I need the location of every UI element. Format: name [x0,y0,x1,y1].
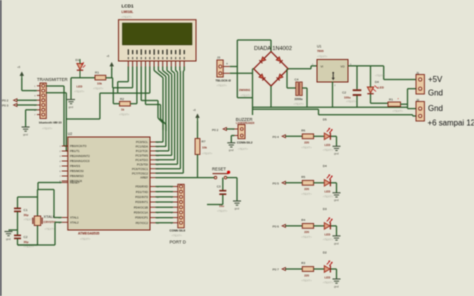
svg-text:PC4/TDO: PC4/TDO [135,158,148,162]
svg-text:PD3/INT1: PD3/INT1 [135,200,148,204]
svg-text:PC2/TCK: PC2/TCK [136,149,148,153]
svg-text:PB3/AIN1/OC0: PB3/AIN1/OC0 [70,159,90,163]
wire [222,178,224,191]
svg-text:<TEXT>: <TEXT> [301,192,312,196]
ground (D5) [333,146,341,155]
wire [18,190,38,217]
wire [9,212,18,235]
svg-text:LED: LED [325,276,331,280]
capacitor C2 (xtal) [14,235,34,249]
wire (supply rail) [253,109,417,116]
svg-text:PB6/MISO: PB6/MISO [70,174,84,178]
LED D3 [323,207,334,241]
LED D5 [323,118,334,152]
resistor R5 [301,175,313,196]
net label Gnd (2) [428,104,443,113]
svg-text:<TEXT>: <TEXT> [45,227,56,231]
svg-text:gnd: gnd [23,132,28,136]
svg-text:RESET: RESET [70,181,80,185]
svg-text:RESET: RESET [212,166,226,171]
svg-text:PB4/SS: PB4/SS [70,164,80,168]
svg-text:P0 2: P0 2 [2,99,9,103]
wire [106,77,113,79]
svg-text:J3: J3 [217,56,221,60]
capacitor C2 (output) [342,90,361,103]
svg-text:LM016L: LM016L [122,10,134,14]
svg-text:<TEXT>: <TEXT> [217,84,228,88]
node tag P0 2 (buzzer) [212,128,227,133]
svg-text:bluetooth HM-10: bluetooth HM-10 [39,121,62,125]
resistor R3 [301,261,313,282]
net label Gnd (1) [428,88,443,97]
svg-text:TRANSMITTER: TRANSMITTER [37,77,68,82]
wire [288,66,317,69]
svg-text:+5V: +5V [428,75,443,84]
svg-text:30p: 30p [24,240,29,244]
svg-text:gnd: gnd [229,148,234,152]
svg-text:<TEXT>: <TEXT> [323,195,334,199]
svg-text:gnd: gnd [334,284,339,288]
resistor R7 (reset pull-up) [195,139,213,156]
svg-text:<TEXT>: <TEXT> [80,237,91,241]
svg-text:PB1/T1: PB1/T1 [70,149,80,153]
svg-text:LED: LED [77,85,83,89]
svg-text:<TEXT>: <TEXT> [323,281,334,285]
svg-text:gnd: gnd [6,237,11,241]
microcontroller U2 ATMEGA8535 [58,132,159,241]
svg-text:PC0/SCL: PC0/SCL [136,140,148,144]
wire [26,110,37,127]
svg-text:LED: LED [325,143,331,147]
wire [286,268,303,270]
wire [332,82,334,108]
svg-text:220: 220 [304,141,309,145]
resistor R6 [301,128,313,149]
svg-text:<TEXT>: <TEXT> [217,209,228,213]
svg-text:<TEXT>: <TEXT> [202,152,213,156]
svg-text:LCD1: LCD1 [122,4,134,9]
wire [66,67,166,132]
ground (buzzer) [227,143,235,152]
net label +6 sampai 12 [428,118,474,127]
node tag P0 5 [273,181,286,185]
wire [331,136,337,146]
wire [286,225,303,227]
node tag P0 7 [273,268,286,272]
svg-text:AREF: AREF [140,176,148,180]
svg-text:<TEXT>: <TEXT> [323,148,334,152]
wire [348,66,416,80]
capacitor C3 [217,185,228,213]
svg-text:C2: C2 [24,235,28,239]
svg-text:ATMEGA8535: ATMEGA8535 [78,232,100,236]
wire [227,128,235,130]
svg-text:220: 220 [304,230,309,234]
push button RESET [212,166,230,179]
resistor R1 (transmitter led) [93,71,106,91]
svg-text:10k: 10k [202,146,207,150]
node tag P0 4 [273,135,286,139]
svg-text:U2: U2 [68,132,72,136]
svg-text:PB0/XCK/T0: PB0/XCK/T0 [70,144,87,148]
LED D4 [323,164,334,198]
wire [356,66,358,89]
LCD LCD1 [119,4,197,67]
svg-text:gnd: gnd [334,152,339,156]
svg-text:220: 220 [304,273,309,277]
svg-text:LED: LED [325,190,331,194]
bridge rectifier DIADA 1N4002 [239,46,292,98]
wire [314,135,325,137]
svg-text:TBLOCK-I2: TBLOCK-I2 [216,79,232,83]
svg-text:2W005G: 2W005G [239,88,251,92]
wire [113,88,137,104]
svg-text:P0 5: P0 5 [273,181,280,185]
wire [314,182,325,184]
crystal X1 XTALL [33,215,57,231]
LED D2 [323,250,334,284]
LED D1 [74,58,85,94]
wire [331,269,337,279]
ground (under D1) [67,100,75,109]
svg-text:D2: D2 [323,250,327,254]
svg-text:30p: 30p [24,213,29,217]
svg-text:Gnd: Gnd [428,88,443,97]
svg-text:PC7/TOSC2: PC7/TOSC2 [132,171,148,175]
svg-text:PD5/OC1A: PD5/OC1A [134,211,148,215]
svg-text:gnd: gnd [235,206,240,210]
wire [154,67,184,174]
ground (xtal) [5,232,13,241]
svg-text:D3: D3 [323,207,327,211]
svg-text:PD0/RXD: PD0/RXD [135,185,148,189]
wire [156,187,174,223]
wire [331,226,337,236]
connector J5 TRANSMITTER [34,77,67,131]
svg-text:<TEXT>: <TEXT> [393,109,404,113]
svg-text:PD7/OC2: PD7/OC2 [136,221,149,225]
svg-text:PC3/TMS: PC3/TMS [135,153,148,157]
svg-text:10k: 10k [97,82,102,86]
svg-text:DIADA 1N4002: DIADA 1N4002 [254,46,292,52]
wire [314,225,325,227]
wire [371,66,389,103]
svg-text:PD2/INT0: PD2/INT0 [135,195,148,199]
wire [286,182,303,184]
wire [270,86,272,107]
wire [46,86,68,146]
ground (D4) [333,193,341,202]
svg-text:LED: LED [325,233,331,237]
svg-text:PD4/OC1B: PD4/OC1B [134,205,148,209]
connector LS1 BUZZER [233,117,255,151]
resistor R2 [119,97,130,117]
svg-text:C4: C4 [295,78,299,82]
net label +5V [428,75,443,84]
node tag P0 6 [273,224,286,228]
wire [230,69,254,115]
svg-text:R6: R6 [301,128,305,132]
wire [207,195,223,205]
svg-text:<TEXT>: <TEXT> [346,100,357,104]
svg-text:220: 220 [304,187,309,191]
svg-text:PORT D: PORT D [170,240,186,245]
wire [37,226,39,246]
svg-text:R3: R3 [301,261,305,265]
svg-text:Gnd: Gnd [428,104,443,113]
svg-text:7805: 7805 [317,49,324,53]
wire (ground rail) [253,106,408,108]
node tag P0 2 [2,99,17,103]
svg-text:<TEXT>: <TEXT> [172,234,183,238]
svg-text:<TEXT>: <TEXT> [301,278,312,282]
svg-text:PD6/ICP1: PD6/ICP1 [135,216,148,220]
svg-text:C1: C1 [24,208,28,212]
wire [314,268,325,270]
power +5V arrow (transmitter) [17,65,24,79]
svg-text:U1: U1 [317,45,321,49]
svg-text:P0 3: P0 3 [2,103,9,107]
node tag P0 3 [2,103,17,107]
svg-text:P0 7: P0 7 [273,268,280,272]
svg-text:C3: C3 [217,185,221,189]
svg-text:<TEXT>: <TEXT> [119,113,130,117]
ground (D2) [333,279,341,288]
svg-text:<TEXT>: <TEXT> [301,146,312,150]
svg-text:+: + [226,62,228,66]
wire [71,78,95,100]
svg-text:D4: D4 [375,80,379,84]
svg-text:R1: R1 [389,97,393,101]
wire [287,69,296,88]
svg-text:<TEXT>: <TEXT> [241,94,252,98]
power +5V arrow (lcd) [107,55,114,70]
svg-text:PC6/TOSC1: PC6/TOSC1 [132,167,148,171]
svg-text:<TEXT>: <TEXT> [238,147,249,151]
svg-text:gnd: gnd [334,198,339,202]
wire [331,183,337,193]
svg-text:gnd: gnd [69,105,74,109]
svg-text:D5: D5 [323,118,327,122]
svg-text:PC1/SDA: PC1/SDA [136,145,148,149]
svg-text:D1: D1 [76,58,80,62]
svg-text:VI: VI [321,64,324,68]
ground (D3) [333,236,341,245]
voltage regulator U1 7805 [312,45,352,88]
svg-text:XTAL1: XTAL1 [70,216,79,220]
wire [401,89,417,109]
svg-text:R2: R2 [120,97,124,101]
wire [227,178,237,201]
svg-text:<TEXT>: <TEXT> [317,54,328,58]
wire [38,183,62,218]
svg-text:P0 4: P0 4 [273,135,280,139]
wire [197,121,199,139]
svg-text:R7: R7 [202,140,206,144]
svg-text:LED: LED [378,86,384,90]
LED D4 (power indicator) [367,73,385,93]
svg-text:PB5/MOSI: PB5/MOSI [70,169,84,173]
svg-text:XTAL2: XTAL2 [70,220,79,224]
svg-text:R4: R4 [301,218,305,222]
wire [46,93,68,151]
svg-text:P0 2: P0 2 [212,128,219,132]
svg-text:CONN-SIL2: CONN-SIL2 [237,140,253,144]
wire [356,96,358,108]
resistor R4 [301,218,313,239]
ground (reset button) [233,201,241,210]
svg-text:<TEXT>: <TEXT> [93,87,104,91]
capacitor C4 (smoothing) [294,78,305,106]
svg-text:<TEXT>: <TEXT> [42,127,53,131]
wire [230,40,271,98]
wire [17,99,37,101]
svg-text:<TEXT>: <TEXT> [323,238,334,242]
wire [231,136,234,143]
svg-text:R1: R1 [95,71,99,75]
svg-text:PD1/TXD: PD1/TXD [136,190,148,194]
sheet border [0,0,2,296]
svg-text:gnd: gnd [334,241,339,245]
wire [111,69,114,88]
wire [286,135,303,137]
svg-text:PB2/AIN0/INT2: PB2/AIN0/INT2 [70,154,90,158]
wire [302,88,307,107]
resistor R1 (power led) [388,97,403,113]
wire [22,79,37,91]
svg-text:R5: R5 [301,175,305,179]
svg-text:+6 sampai 12: +6 sampai 12 [428,118,474,127]
ground (transmitter) [22,127,30,136]
svg-text:<TEXT>: <TEXT> [294,102,305,106]
capacitor C1 (xtal) [14,208,34,222]
svg-text:D4: D4 [323,164,327,168]
svg-text:2200u: 2200u [295,97,303,101]
svg-text:<TEXT>: <TEXT> [375,73,386,77]
wire [18,222,62,245]
wire [18,239,38,245]
svg-text:PC5/TDI: PC5/TDI [137,162,148,166]
connector J2 (supply out) [416,98,425,121]
power +5V arrow (reset) [193,109,200,121]
connector J6 PORT D [170,184,186,244]
svg-text:1k: 1k [121,108,125,112]
svg-text:XTALL: XTALL [44,215,55,219]
svg-text:P0 6: P0 6 [273,224,280,228]
connector J1 (+5V out) [416,71,425,94]
svg-text:CONN-SIL8: CONN-SIL8 [170,229,186,233]
svg-text:<TEXT>: <TEXT> [301,235,312,239]
wire [156,155,216,178]
connector J3 (supply input) [216,56,232,88]
svg-text:<TEXT>: <TEXT> [74,90,85,94]
svg-text:C2: C2 [342,90,346,94]
svg-text:<TEXT>: <TEXT> [122,15,133,19]
